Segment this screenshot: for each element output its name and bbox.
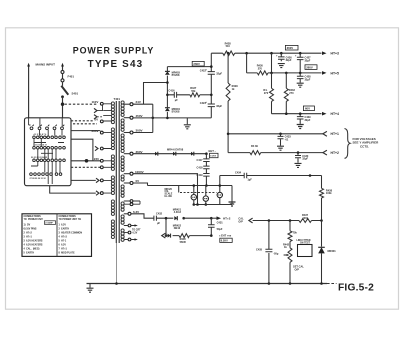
ground symbol bus left [87,284,94,293]
wire block to primary tap a [71,130,100,132]
diode MR404 [165,108,170,111]
switch S401 lower contact [61,95,64,98]
diode MR417 [173,152,176,156]
resistor R440 [179,234,189,238]
label HT+2 [331,151,339,155]
junction bus/MR401 [320,282,323,285]
svg-text:T401: T401 [114,97,121,101]
label 0V tap [136,179,140,183]
switch S401 blade [61,86,68,95]
boxed label 260V right [305,65,317,70]
wire 6.3V dc line [184,217,212,219]
terminal primary 110V [100,102,103,105]
svg-text:220: 220 [94,157,99,161]
label C430 32uF [302,154,309,161]
terminal block row 5 contacts [30,173,62,176]
ground C428 [297,83,304,87]
terminal block internal wiring [29,118,64,184]
wire R438 to node [321,198,323,221]
secondary tap 0V terminal [130,182,133,185]
label R439 [251,144,258,148]
svg-text:·01: ·01 [285,137,289,141]
wire doubler top [167,67,211,72]
wire switch to junction [62,97,64,118]
junction heater bus / EHT caps [205,184,208,187]
junction CAL/R441 [289,219,292,222]
EHT voltage box [210,153,219,157]
svg-text:6.2KV: 6.2KV [221,239,228,243]
label MR421 [173,207,182,214]
svg-text:270: 270 [289,91,294,95]
junction MR421 out [182,217,185,220]
junction primary common [85,159,89,163]
lamp LP3 [217,184,222,204]
label MAINS INPUT [36,62,56,66]
secondary tap 0V lead [124,182,130,184]
resistor R428 [223,51,235,55]
svg-text:6) 10V PINS: 6) 10V PINS [24,228,37,230]
svg-text:21 AMP: 21 AMP [45,222,53,225]
label R442 1k [283,242,290,249]
svg-text:≈ EHT +ve: ≈ EHT +ve [219,234,232,238]
label R441 75k [293,230,298,234]
svg-text:C432: C432 [156,212,163,216]
label F401 [68,75,75,79]
svg-text:O/P: O/P [295,267,300,271]
wire dashed selector link [65,103,98,105]
wire pot to bus [289,262,291,283]
junction C434 line [309,174,312,177]
wire EHT cap column [205,154,207,186]
svg-text:260V: 260V [306,65,313,69]
ground 450V line [184,125,191,129]
terminal primary pin8 [100,166,103,169]
secondary tap 24V lead [124,103,130,105]
svg-text:2 EARTH: 2 EARTH [59,227,70,230]
wire 6.3V interline link [165,217,168,237]
terminal block row 3 numbers [34,144,48,147]
svg-text:NE10: NE10 [174,226,181,230]
svg-text:270: 270 [258,66,263,70]
diode MR418 [191,152,194,156]
junction HT2/C430 [297,151,300,154]
junction reservoir top [210,65,213,68]
label R438 100k [326,188,333,195]
svg-text:3 HEATER COMMON: 3 HEATER COMMON [59,231,83,234]
label 0V [95,118,99,122]
label C427 32uF [305,56,312,63]
terminal block row 4 numbers [31,156,48,159]
svg-text:6.3V: 6.3V [133,232,138,234]
resistor R439 [250,151,261,155]
svg-text:TYPE S43: TYPE S43 [88,59,144,70]
ground bus [87,283,328,285]
svg-text:MAINS INPUT: MAINS INPUT [36,62,56,66]
svg-text:·05µ: ·05µ [273,252,279,256]
svg-text:C435: C435 [256,247,263,251]
svg-text:O/P: O/P [238,219,243,223]
diode MR416 [155,152,158,156]
svg-text:360V: 360V [287,46,294,50]
svg-text:1µF: 1µF [247,178,252,182]
transformer T401 label [114,97,121,101]
label R428 510 [225,41,232,48]
wire 6.3V to C433 [131,214,173,218]
junction EHT node [205,152,208,155]
wire R441 leg [289,221,291,248]
junction HT5/R432 [285,72,288,75]
capacitor C433 bypass [278,134,284,146]
resistor R429 [226,83,230,101]
svg-text:HT+2: HT+2 [331,151,339,155]
junction rail/C426 [280,52,283,55]
diode MR422 [168,234,171,238]
label 110V [92,100,99,104]
wire 24V tap to rectifier [133,83,167,105]
label MR420 block [165,188,173,198]
svg-text:27 28 29 30 31 32: 27 28 29 30 31 32 [30,178,47,180]
wire fuse gap [62,74,64,79]
label HT+5 [331,71,339,75]
label EHT +ve [219,234,232,238]
wire R427 to rail [200,94,212,96]
secondary tap crt3 [124,238,138,241]
terminal chevron lower [162,233,166,238]
svg-text:HT+1: HT+1 [331,132,339,136]
label C417 [197,158,204,162]
wire mains live lead with arrow [61,63,64,71]
output arrow 6.3V [217,216,222,220]
label R429 1k [232,84,239,91]
terminal chevron HT+1 [323,131,327,136]
wire dashed block-to-selector upper [71,120,95,122]
resistor R437 [299,219,312,223]
label R427 55k [190,86,197,93]
svg-text:CONNECTIONS: CONNECTIONS [24,216,42,218]
secondary tap 300V terminal [130,131,133,134]
wire C434 line [220,176,322,189]
junction rail/R431 [270,52,273,55]
selector chevron e [96,191,99,195]
junction bus/C435 [268,282,271,285]
label 450V [136,114,143,118]
boxed label 260V [192,61,204,66]
label MR403 [172,71,181,78]
resistor R438 [320,188,324,198]
title line 2 [88,59,144,70]
junction rail/R429 [227,52,230,55]
junction HT1 tap [227,133,230,136]
svg-text:1) OV: 1) OV [24,224,31,226]
label R430 270 [257,64,264,71]
wire MR401 branch [321,221,323,284]
svg-text:3 HT+1: 3 HT+1 [24,236,33,238]
connections table [22,214,92,257]
junction 1000V return [196,203,199,206]
svg-text:1 6.3V: 1 6.3V [59,224,67,226]
svg-text:55k: 55k [191,89,196,93]
wire R431 leg [271,73,273,114]
label C423 [200,101,207,105]
junction CAL/C435 [268,219,271,222]
secondary tap crt1 [124,224,138,227]
svg-text:60V: 60V [305,107,310,111]
svg-text:100k: 100k [326,191,332,195]
label R440 560R [180,237,187,244]
label EHT output [209,149,217,153]
terminal primary 0V [100,120,103,123]
capacitor C419 [203,174,209,177]
wire selector vertical [152,104,154,132]
transformer secondary winding [121,101,124,241]
label MR416-8 EH708 [167,148,184,152]
label C428 32uF [305,75,312,82]
svg-text:ILLUM.: ILLUM. [165,196,173,198]
secondary tap 450V terminal [130,116,133,119]
svg-text:F401: F401 [68,75,75,79]
secondary tap EHT lead [124,153,130,155]
terminal chevron CAL [249,218,253,223]
label R432 270 [289,88,296,95]
wire lower 6.3V line [165,235,211,237]
capacitor C427 [295,53,304,73]
label 1uF [247,178,252,182]
svg-text:7 HT+1: 7 HT+1 [59,248,68,250]
label C419 [197,173,204,177]
selector chevron a [94,105,103,112]
label 32uF b [216,104,222,108]
capacitor C418 [203,166,209,169]
secondary tap aux1 [124,200,140,203]
ground C429 [297,125,304,129]
terminal block row 3 contacts [33,146,66,149]
terminal block outline [25,118,72,186]
svg-text:560R: 560R [180,240,186,244]
wire mains earth lead with arrow [27,63,30,118]
svg-text:2 HT+2: 2 HT+2 [24,232,33,234]
junction rail/R430 [245,52,248,55]
label HT+3 [331,52,339,56]
boxed label 60V [303,106,314,111]
junction HT1/C433 [279,133,282,136]
resistor R441 [288,231,292,242]
junction 6.3V/C431 [210,217,213,220]
svg-text:HT+2: HT+2 [223,216,231,220]
wire 6.3V arrow [211,217,216,219]
label R437 100k [302,213,309,220]
svg-text:ON TEST: ON TEST [300,243,311,245]
svg-text:HT+4: HT+4 [331,112,339,116]
label C434 [235,170,242,174]
wire lamp feed [178,186,180,193]
title line 1 [73,46,155,56]
svg-text:32µF: 32µF [305,58,311,62]
svg-text:8 MOD PLATE: 8 MOD PLATE [59,251,76,254]
terminal heater pin b [100,192,103,195]
wire HT+5 line [272,53,322,73]
svg-text:HT+5: HT+5 [331,71,339,75]
terminal heater pin a [100,179,103,182]
wire HT+4 line [272,113,322,115]
junction C416 branch [166,94,169,97]
boxed label 360V [285,45,298,50]
label R431 270 [263,88,268,95]
label C431 [217,220,224,224]
svg-text:32µF: 32µF [216,72,222,76]
junction 450V/selector [152,117,155,120]
svg-text:4 6.3V HEATERS: 4 6.3V HEATERS [24,243,43,246]
resistor R432 [284,88,288,101]
svg-text:S401: S401 [72,92,79,96]
svg-text:TO POWER UNIT: TO POWER UNIT [24,219,44,221]
svg-text:C418: C418 [197,166,204,170]
svg-text:6·2KV: 6·2KV [210,156,217,158]
wire 450V tap to doubler bottom [133,117,211,119]
junction HT4/R432 [285,112,288,115]
svg-text:EHT→: EHT→ [209,149,217,153]
ground C426 [278,64,285,68]
resistor R430 [257,71,268,75]
svg-text:230V: 230V [92,129,99,133]
junction bus/pot [289,282,292,285]
diode MR401 [318,247,325,253]
svg-text:13 14 15 16 17: 13 14 15 16 17 [34,144,48,147]
svg-text:+: + [295,55,297,58]
label HT+4 [331,112,339,116]
junction reservoir mid [210,94,213,97]
junction bus/screen [115,282,118,285]
wire reservoir stack [210,53,212,118]
secondary tap 1000V terminal [130,172,133,175]
label C433 01 [285,135,292,142]
label 220 [94,157,99,161]
svg-text:20 21 22 23 24 25: 20 21 22 23 24 25 [31,156,48,159]
label C426 32uF [286,55,293,62]
label CAL O/P [238,217,244,224]
label C416 [168,89,175,93]
label HT+1 [331,132,339,136]
svg-text:CONNECTIONS: CONNECTIONS [59,216,77,218]
svg-text:270: 270 [264,91,269,95]
selector chevron b [94,115,103,119]
label C429 32uF [305,115,312,122]
label 6.3V [133,210,139,214]
terminal primary 220 [100,159,103,162]
svg-text:0V: 0V [95,118,99,122]
wire diode bottom [166,112,168,118]
label 300V [136,129,143,133]
svg-text:HT+3: HT+3 [331,52,339,56]
svg-text:260V: 260V [193,62,200,66]
svg-text:32µF: 32µF [216,104,222,108]
secondary tap 24V terminal [130,103,133,106]
svg-text:50µF: 50µF [217,227,223,231]
terminal primary pin6 [100,147,103,150]
wire R429 branch [227,53,229,152]
label C418 [197,166,204,170]
junction C431 bottom [210,234,213,237]
label 360V [136,150,143,154]
resistor R427 [190,93,200,97]
transformer core [116,101,119,243]
svg-text:5 EARTH: 5 EARTH [24,251,35,254]
svg-text:MR401: MR401 [328,249,337,253]
junction diode mid [166,81,169,84]
secondary tap aux2 [124,201,140,206]
ground C433 [277,146,284,150]
terminal primary 230V [100,131,103,134]
capacitor C431 [208,218,223,235]
wire C435 branch [268,221,270,284]
label 05uF [273,252,279,256]
svg-text:µF: µF [157,221,160,225]
secondary tap crt2 [124,231,131,234]
capacitor C426 [276,53,285,61]
lamp LP1 [191,184,196,206]
secondary tap 1000V lead [124,173,130,175]
label LINK FITTED ON TEST [297,240,311,245]
fuse F401 terminal lower [61,79,64,82]
figure label FIG.5-2 [338,283,374,294]
secondary tap 300V lead [124,132,130,134]
svg-text:TO CRT: TO CRT [132,230,141,232]
svg-text:5 HT-1: 5 HT-1 [59,240,67,242]
svg-text:510: 510 [226,44,231,48]
label S401 [72,92,79,96]
secondary tap 6.3V lead [124,213,128,215]
wire HT+2 line [228,152,323,154]
svg-text:110V: 110V [92,100,99,104]
svg-text:BY208: BY208 [172,110,180,114]
wire block to primary tap b [71,160,100,162]
capacitor C432 [154,216,161,225]
terminal block row 2 contacts [33,136,66,139]
label C432 cap [156,212,163,216]
capacitor C428 [297,73,304,83]
junction R430/R431 [270,72,273,75]
transformer primary winding [111,102,114,239]
svg-text:32µF: 32µF [302,157,308,161]
svg-text:4 3 2 1 9 8 7 6: 4 3 2 1 9 8 7 6 [34,133,48,136]
svg-text:C431: C431 [217,220,224,224]
svg-text:µF: µF [175,98,178,102]
svg-text:+: + [205,67,207,71]
secondary tap 450V lead [124,117,130,119]
selector chevron d [96,178,99,182]
link box on test [298,245,313,257]
brace voltages note [345,129,351,159]
fuse F401 terminal upper [61,71,64,74]
boxed label 6.2KV [220,238,232,242]
label 230V [92,129,99,133]
wire between diodes [166,76,168,108]
wire block corner link [71,139,93,161]
svg-text:FIG.5-2: FIG.5-2 [338,283,374,294]
wire ground branch 450V line [186,118,188,124]
junction HT4/C429 [299,112,302,115]
svg-text:6 6.3V: 6 6.3V [59,244,67,246]
svg-text:4.30.8: 4.30.8 [174,210,182,214]
wire HT+1 line [228,133,323,135]
ground bus dashed tail [327,283,337,285]
terminal block row 4 contacts [33,159,66,162]
label MR401 [328,249,337,253]
label SET CAL O/P [293,265,304,272]
capacitor C422 [205,67,215,74]
terminal block row 1 contacts [30,125,64,130]
wire CAL line [253,220,322,222]
capacitor C430 [295,153,301,163]
